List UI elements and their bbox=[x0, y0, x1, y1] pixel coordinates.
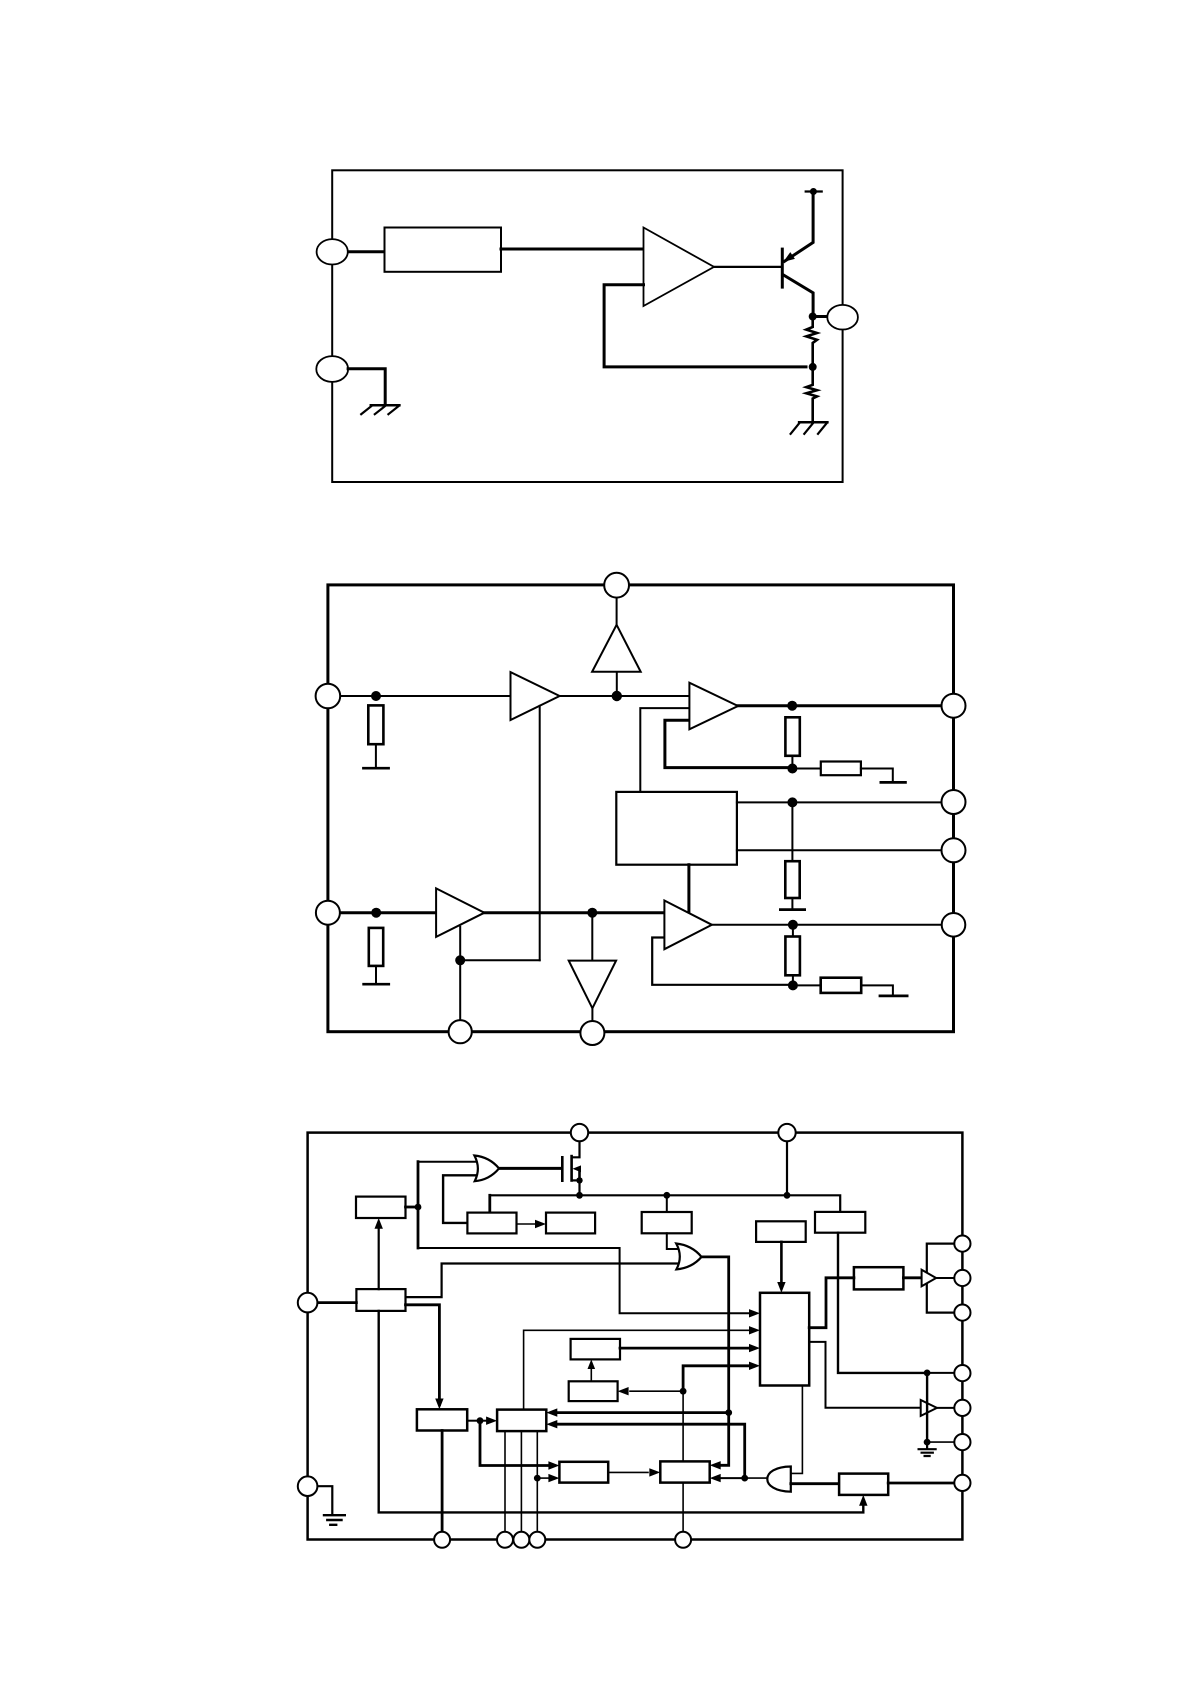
amp A1 bbox=[511, 672, 560, 720]
ground bar under R1 bbox=[363, 767, 388, 770]
arrowhead input1 bbox=[749, 1309, 760, 1317]
arrowhead into P2 right2 bbox=[710, 1474, 721, 1482]
wire OR1 input top bbox=[418, 1161, 477, 1163]
OR gate U2 bbox=[676, 1244, 701, 1270]
MOSFET Q1 body stub bbox=[578, 1169, 581, 1181]
block U1 (input stage) bbox=[385, 228, 502, 272]
node dot P1 tap bbox=[534, 1475, 541, 1482]
wire to block M input1 bbox=[558, 1411, 729, 1414]
right pin 4 circle bbox=[942, 913, 966, 937]
node dot rail source bbox=[576, 1192, 583, 1199]
wire net683 to O bbox=[630, 1390, 683, 1392]
arrowhead into M 1 bbox=[546, 1408, 557, 1416]
block O bbox=[569, 1381, 618, 1401]
arrowhead B-C bbox=[535, 1220, 546, 1228]
MOSFET Q1 drain stub bbox=[572, 1142, 580, 1158]
wire R6 to node bbox=[792, 975, 794, 985]
wire R7h to ground tail bbox=[861, 985, 893, 993]
left pin 2 circle bbox=[298, 1476, 318, 1496]
top pin circle bbox=[604, 573, 629, 598]
wire node to output pin bbox=[813, 315, 828, 318]
wire R5 to ground bbox=[791, 898, 793, 908]
node dot collector/output bbox=[809, 313, 817, 321]
wire dot480 to P1 input1 bbox=[480, 1421, 548, 1466]
wire amp4 feedback loop bbox=[652, 938, 790, 985]
block M bbox=[497, 1410, 546, 1432]
node dot R1 tap bbox=[371, 691, 381, 701]
IC outline box bbox=[328, 585, 954, 1032]
resistor R6 bbox=[785, 937, 800, 976]
wire left pin2 to amp3 bbox=[340, 911, 436, 914]
wire OR1 input bottom bbox=[443, 1175, 477, 1223]
wire node to R4h bbox=[792, 768, 820, 770]
ground G2 hatches bbox=[361, 406, 399, 414]
OR gate U1 bbox=[474, 1156, 499, 1182]
resistor R1 zigzag bbox=[806, 317, 817, 367]
wire block out1 to pin bbox=[737, 801, 942, 803]
node dot amp2 out bbox=[787, 701, 797, 711]
wire buffer2 to bottom pin bbox=[591, 1008, 593, 1021]
buffer T1 bbox=[922, 1270, 937, 1287]
wire cross link horizontal bbox=[460, 959, 540, 961]
wire block I stub1 to J bbox=[809, 1278, 854, 1328]
arrowhead O-N up bbox=[588, 1359, 596, 1369]
wire G down long bbox=[838, 1233, 927, 1373]
wire block to amp2 mid input bbox=[640, 708, 689, 792]
wire P1 to P2 bbox=[608, 1471, 648, 1473]
arrowhead into P2 right1 bbox=[710, 1461, 721, 1469]
wire amp3 output to amp4 bbox=[484, 911, 664, 914]
block P2 bbox=[660, 1461, 709, 1482]
resistor R1 bbox=[368, 705, 383, 744]
wire O to N arrow bbox=[590, 1364, 592, 1381]
ground bar under R2 bbox=[364, 983, 389, 986]
arrowhead into K up bbox=[859, 1495, 867, 1506]
control block U2 bbox=[616, 792, 737, 865]
right pin C circle bbox=[954, 1305, 970, 1321]
resistor R5 bbox=[785, 861, 799, 898]
arrowhead into P1 2 bbox=[548, 1474, 559, 1482]
supply tick bar bbox=[806, 190, 822, 192]
wire R3 to node bbox=[791, 756, 793, 769]
transistor Q1 base bar bbox=[781, 249, 784, 287]
block G bbox=[815, 1212, 865, 1233]
wire vertical through buffer2 bbox=[926, 1373, 928, 1442]
wire N to big block input3 bbox=[620, 1347, 749, 1350]
wire D bottom long to block K bbox=[379, 1311, 864, 1513]
arrowhead into P1 1 bbox=[548, 1461, 559, 1469]
MOSFET Q1 channel bar bbox=[570, 1156, 573, 1180]
IC outline box bbox=[308, 1133, 963, 1540]
wire node to down buffer bbox=[591, 913, 593, 961]
bottom pin 2 circle bbox=[580, 1021, 604, 1045]
node dot feedback tap bbox=[809, 363, 817, 371]
wire block to amp4 top input bbox=[687, 865, 690, 912]
bottom pin 2 circle bbox=[497, 1532, 513, 1548]
wire amp2 feedback loop bbox=[665, 720, 790, 767]
wire rail to block B bbox=[488, 1195, 491, 1212]
node dot gate3 out bbox=[741, 1475, 748, 1482]
earth ground E1 bbox=[919, 1442, 936, 1456]
wire M bottom pin line 2 bbox=[520, 1431, 522, 1532]
node dot rail pin bbox=[784, 1192, 791, 1199]
pin 2 circle bbox=[316, 356, 348, 382]
right pin D circle bbox=[954, 1365, 970, 1381]
block A bbox=[356, 1197, 406, 1218]
block B bbox=[467, 1213, 516, 1234]
arrowhead input4 bbox=[749, 1362, 760, 1370]
ground bar tail2 bbox=[880, 995, 907, 998]
ground bar tail bbox=[881, 781, 906, 784]
wire B to C arrow bbox=[517, 1223, 536, 1225]
wire left pin1 to amp1 bbox=[340, 695, 510, 697]
node dot fb2 bbox=[787, 764, 797, 774]
right pin F circle bbox=[954, 1434, 970, 1450]
arrowhead into M 2 bbox=[546, 1420, 557, 1428]
transistor Q1 collector bbox=[783, 275, 813, 317]
wire dot to gate3 tip bbox=[745, 1477, 768, 1479]
wire node down to R6 bbox=[792, 925, 794, 937]
wire source to rail bbox=[578, 1180, 580, 1195]
wire OR1 output to gate bbox=[499, 1167, 561, 1170]
right pin E circle bbox=[954, 1400, 970, 1416]
wire dot to M arrow bbox=[480, 1420, 487, 1422]
wire block L bottom to pin bbox=[441, 1431, 444, 1532]
pin 1 circle bbox=[317, 239, 348, 264]
bottom pin 4 circle bbox=[529, 1532, 545, 1548]
node dot OR2 branch bbox=[725, 1409, 732, 1416]
arrowhead H-I down bbox=[777, 1282, 785, 1293]
wire left pin2 to ground bbox=[317, 1486, 332, 1514]
wire block out2 to pin bbox=[737, 849, 942, 851]
gate U3 (left AND) bbox=[767, 1467, 791, 1492]
wire block I bottom to gate3 bbox=[791, 1386, 803, 1474]
op-amp A1 bbox=[644, 228, 715, 307]
wire F to OR2 bbox=[667, 1233, 681, 1249]
wire cross-couple from amp1 down bbox=[539, 706, 541, 960]
wire K to pin G bbox=[888, 1482, 954, 1485]
right pin 2 circle bbox=[942, 790, 966, 814]
top pin 1 circle bbox=[571, 1124, 588, 1141]
block D bbox=[356, 1289, 405, 1311]
wire M input2 from gate3 net bbox=[558, 1424, 745, 1478]
wire cross-couple amp3 down bbox=[459, 927, 461, 1030]
buffer T2 bbox=[921, 1400, 937, 1416]
node dot A out bbox=[415, 1204, 422, 1211]
node dot L out bbox=[477, 1417, 484, 1424]
arrowhead into A up bbox=[375, 1218, 383, 1229]
MOSFET Q1 source stub bbox=[572, 1179, 580, 1181]
wire block D to block L bbox=[406, 1305, 440, 1405]
block H bbox=[756, 1221, 806, 1242]
ground G1 hatches bbox=[791, 423, 827, 434]
bottom pin 3 circle bbox=[513, 1532, 529, 1548]
right pin G circle bbox=[954, 1475, 970, 1491]
wire rail to block F bbox=[666, 1195, 668, 1212]
left pin 2 circle bbox=[316, 901, 340, 925]
wire node to R7h bbox=[793, 984, 821, 986]
arrowhead input3 bbox=[749, 1344, 760, 1352]
wire vertical D-A with arrow bbox=[378, 1228, 380, 1290]
wire block A output bbox=[406, 1206, 417, 1209]
wire R2 to ground bbox=[375, 966, 377, 982]
transistor Q1 emitter arrow (PNP) bbox=[783, 252, 795, 262]
ground bar under R5 bbox=[780, 908, 804, 911]
wire left pin1 to block D bbox=[317, 1301, 356, 1304]
wire buffer to node bbox=[616, 672, 618, 696]
wire block D to OR2 bbox=[406, 1264, 682, 1298]
wire op-amp output to base bbox=[714, 266, 782, 268]
node dot net683 bbox=[680, 1388, 687, 1395]
buffer B2 (down triangle) bbox=[569, 961, 616, 1009]
wire buffer1 out bbox=[936, 1277, 954, 1279]
block L bbox=[417, 1409, 467, 1430]
wire net683 to big block input4 bbox=[683, 1366, 749, 1391]
IC outline box bbox=[332, 170, 842, 482]
ground G1 bar bbox=[799, 421, 827, 424]
node dot amp3 out bbox=[587, 908, 597, 918]
wire vertical bus from A bbox=[417, 1162, 420, 1248]
wire amp4 output to pin bbox=[712, 924, 942, 926]
amp A3 bbox=[436, 888, 484, 937]
resistor R7h horizontal bbox=[821, 978, 862, 993]
block P1 bbox=[559, 1462, 608, 1483]
block I (main register) bbox=[760, 1293, 809, 1386]
output pin circle bbox=[827, 305, 858, 330]
wire R1 to ground bbox=[375, 744, 377, 767]
resistor R2 zigzag bbox=[806, 367, 817, 422]
wire net683 down to pin bbox=[682, 1391, 684, 1532]
wire to pin D bbox=[927, 1372, 954, 1374]
node dot out1 bbox=[787, 797, 797, 807]
right pin A circle bbox=[954, 1236, 970, 1252]
node dot source bbox=[576, 1177, 582, 1183]
ground G2 bar bbox=[371, 404, 400, 407]
wire amp1 output to amp2 bbox=[560, 695, 690, 697]
wire M bottom pin line 3 bbox=[536, 1431, 538, 1532]
wire supply rail bbox=[490, 1195, 840, 1212]
wire dot to P1 input2 bbox=[537, 1477, 548, 1479]
arrowhead P1-P2 bbox=[649, 1468, 660, 1476]
amp A2 bbox=[689, 683, 738, 730]
wire bus A to big block input1 bbox=[418, 1248, 749, 1313]
resistor R4h horizontal bbox=[821, 762, 861, 776]
resistor R3 bbox=[785, 717, 799, 756]
bottom pin 1 circle bbox=[434, 1532, 450, 1548]
node dot amp4 out bbox=[788, 920, 798, 930]
left pin 1 circle bbox=[316, 684, 341, 709]
supply node dot bbox=[810, 188, 817, 195]
earth ground E2 bbox=[324, 1515, 345, 1525]
wire block I stub2 to buffer2 bbox=[809, 1342, 921, 1408]
amp A4 bbox=[664, 901, 712, 950]
wire dot to P2 input2 bbox=[721, 1477, 745, 1479]
wire top pin2 to rail bbox=[786, 1142, 788, 1196]
node dot amp1 out bbox=[612, 691, 622, 701]
resistor R2 bbox=[369, 928, 383, 966]
wire R4h to ground tail bbox=[861, 769, 893, 781]
wire feedback loop bbox=[604, 285, 806, 367]
wire dot to pin F bbox=[927, 1441, 954, 1443]
wire pin1 to input block bbox=[348, 250, 385, 253]
transistor Q1 emitter bbox=[785, 193, 814, 261]
node dot cross bbox=[455, 955, 465, 965]
node dot fb4 bbox=[788, 980, 798, 990]
bottom pin 1 circle bbox=[449, 1020, 472, 1043]
wire buffer2 out bbox=[937, 1407, 954, 1409]
wire L to M bbox=[467, 1420, 480, 1422]
wire M bottom pin line 1 bbox=[504, 1431, 506, 1532]
wire OR2 branch to P2 bbox=[721, 1413, 729, 1466]
arrowhead into M left bbox=[486, 1417, 497, 1425]
node dot rail F bbox=[663, 1192, 670, 1199]
bottom pin 5 circle bbox=[675, 1532, 691, 1548]
block N bbox=[571, 1339, 620, 1360]
wire block to op-amp input bbox=[501, 248, 644, 251]
wire node down to R5 bbox=[791, 802, 793, 861]
block F bbox=[642, 1212, 692, 1233]
block K bbox=[839, 1474, 888, 1495]
wire J to buffer1 bbox=[903, 1276, 921, 1279]
arrowhead input2 bbox=[749, 1326, 760, 1334]
block C bbox=[546, 1213, 595, 1234]
wire top pin to buffer bbox=[616, 598, 618, 625]
right pin 1 circle bbox=[942, 694, 966, 718]
MOSFET Q1 body arrow bbox=[573, 1165, 582, 1172]
left pin 1 circle bbox=[298, 1293, 318, 1313]
right pin B circle bbox=[954, 1270, 970, 1286]
arrowhead into L down bbox=[435, 1399, 443, 1410]
block J bbox=[854, 1267, 904, 1289]
node dot R2 tap bbox=[371, 908, 381, 918]
MOSFET Q1 gate bar bbox=[561, 1157, 564, 1180]
node dot gnd tap bbox=[924, 1439, 931, 1446]
node dot pinD tap bbox=[924, 1370, 931, 1377]
right pin 3 circle bbox=[942, 838, 966, 862]
wire H down to big block bbox=[780, 1242, 783, 1288]
wire M top to big block input2 bbox=[524, 1330, 749, 1409]
wire gate3 to block K bbox=[791, 1482, 839, 1485]
wire pin2 to ground bbox=[348, 369, 385, 404]
wire amp2 output to pin bbox=[738, 704, 942, 707]
wire OR2 output down bbox=[702, 1257, 729, 1413]
arrowhead into O left bbox=[618, 1387, 629, 1395]
wire bracket pins A-C bbox=[927, 1244, 955, 1313]
buffer B1 (up triangle) bbox=[592, 625, 641, 672]
top pin 2 circle bbox=[778, 1124, 795, 1141]
